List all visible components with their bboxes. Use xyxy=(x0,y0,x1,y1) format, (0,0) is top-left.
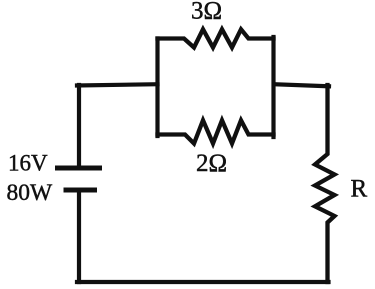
wire bottom horizontal xyxy=(77,280,329,284)
svg-text:R: R xyxy=(351,176,368,203)
resistor R1 3ohm (top branch zigzag) xyxy=(158,29,274,47)
wire top-right horizontal xyxy=(274,84,329,86)
wire top-left horizontal xyxy=(77,84,158,85)
battery V1 bottom plate (short, negative) xyxy=(64,188,98,193)
wire left vertical top (battery + to top-left corner) xyxy=(77,85,81,166)
wire parallel-box right edge xyxy=(271,37,275,137)
svg-text:3Ω: 3Ω xyxy=(191,0,222,25)
svg-text:16V: 16V xyxy=(8,151,48,176)
wire parallel-box left edge xyxy=(155,39,159,137)
resistor R (right vertical zigzag) xyxy=(315,85,335,282)
resistor R2 2ohm (bottom branch zigzag) xyxy=(158,120,274,143)
wire left vertical bottom xyxy=(77,192,81,282)
battery V1 top plate (long, positive) xyxy=(55,166,102,171)
svg-text:2Ω: 2Ω xyxy=(196,150,227,177)
svg-text:80W: 80W xyxy=(7,180,54,206)
